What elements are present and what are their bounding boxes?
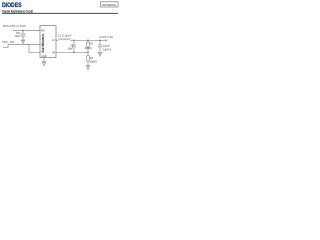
value label C4 33pF: [68, 44, 74, 50]
pin EN: [41, 45, 45, 47]
capacitor CIN: [21, 34, 26, 40]
pin LX: [52, 40, 55, 42]
pin SS: [41, 52, 45, 54]
node OFF/ON labels: [2, 40, 14, 44]
section title: [2, 9, 34, 13]
value label R2 160k: [90, 57, 97, 64]
op-amp U1 AP3406A: [40, 26, 56, 58]
node R1 top junction: [87, 40, 89, 42]
node Cout junction: [99, 40, 101, 42]
ground (IC): [42, 62, 47, 67]
svg-text:DIODES: DIODES: [2, 2, 22, 9]
svg-text:L1 2.2µH: L1 2.2µH: [58, 33, 71, 37]
wire VOUT rail: [70, 39, 106, 41]
logo DIODES: [2, 2, 22, 9]
value label CIN 10uF: [15, 32, 21, 38]
svg-text:LX: LX: [52, 40, 55, 42]
svg-text:OFF: OFF: [2, 40, 8, 44]
value label U1 AP3406A: [41, 34, 45, 52]
value label L1 2.2uH: [58, 33, 71, 37]
svg-text:FB: FB: [52, 52, 55, 54]
ground (R2): [86, 66, 90, 71]
node Cin junction: [22, 30, 24, 32]
resistor R2: [87, 52, 90, 66]
capacitor C4: [72, 40, 76, 52]
svg-text:VIN: VIN: [41, 30, 45, 32]
wire enable step waveform: [3, 45, 14, 48]
part number box AP3406A: [101, 2, 119, 7]
value label COUT 10uFx2: [103, 45, 112, 51]
svg-text:33pF: 33pF: [68, 48, 74, 51]
node C4 top junction: [73, 40, 75, 42]
svg-text:10µF: 10µF: [15, 35, 21, 38]
inductor L1: [58, 39, 70, 41]
wire Cin drop: [22, 31, 24, 35]
svg-text:320kΩ: 320kΩ: [85, 47, 92, 50]
ground (Cin): [21, 40, 25, 44]
svg-text:VOUT=1.8V: VOUT=1.8V: [99, 35, 113, 39]
pin GND: [41, 56, 46, 58]
rule: [2, 12, 118, 14]
svg-text:AP3406A: AP3406A: [41, 34, 45, 52]
wire EN: [14, 44, 40, 46]
resistor R1: [87, 40, 90, 52]
ground (Cout): [98, 52, 102, 56]
wire LX: [56, 39, 58, 41]
svg-text:EN: EN: [41, 45, 45, 47]
wire VIN input: [13, 30, 40, 32]
pin FB: [52, 52, 55, 54]
svg-text:Typical Applications Circuit: Typical Applications Circuit: [2, 9, 34, 13]
pin VIN: [41, 30, 45, 32]
wire EN-SS jumper: [29, 45, 40, 53]
svg-text:SS: SS: [41, 52, 45, 54]
svg-text:VIN=2.5V to 5.5V: VIN=2.5V to 5.5V: [3, 24, 27, 28]
svg-text:ON: ON: [10, 40, 14, 44]
svg-text:160kΩ: 160kΩ: [90, 61, 97, 64]
capacitor COUT: [98, 40, 102, 52]
wire VOUT arrow: [105, 39, 107, 41]
wire GND stem: [43, 58, 45, 62]
node C4 bottom junction: [73, 52, 75, 54]
svg-text:AP3406A: AP3406A: [102, 3, 116, 7]
node FB junction: [87, 52, 89, 54]
node VIN label: [3, 24, 27, 28]
svg-text:10µF×2: 10µF×2: [103, 48, 112, 51]
node VOUT label: [99, 35, 113, 39]
value label R1 320k: [85, 43, 94, 50]
wire FB: [56, 51, 88, 53]
